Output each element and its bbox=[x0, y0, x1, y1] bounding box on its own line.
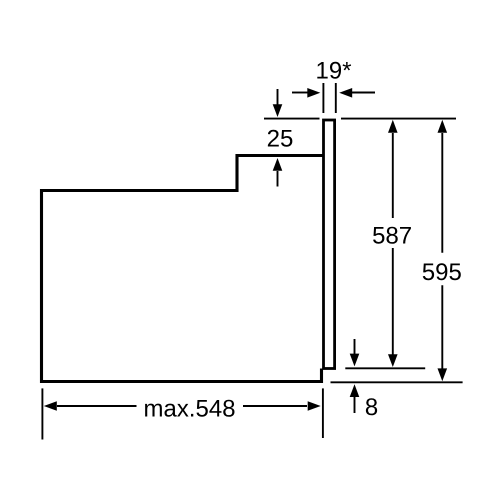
dimension arrow 25 upper (down) bbox=[273, 89, 283, 117]
dimension line 587 bbox=[388, 120, 398, 367]
oven door panel bbox=[324, 120, 335, 369]
dimension arrow 25 lower (up) bbox=[273, 158, 283, 187]
label 595 bbox=[423, 263, 461, 280]
label 8 bbox=[366, 398, 377, 415]
dimension arrow 19* right bbox=[339, 88, 375, 98]
dimension line max.548 bbox=[44, 401, 321, 411]
extension line door bottom level bbox=[345, 367, 425, 369]
extension line 19* right bbox=[335, 83, 337, 113]
dimension line 595 bbox=[438, 120, 448, 381]
label 25 bbox=[268, 130, 292, 147]
dimension arrow 8 upper (down) bbox=[350, 339, 360, 366]
dimension arrow 19* left bbox=[292, 88, 320, 98]
extension line carcass bottom level bbox=[331, 381, 463, 383]
oven carcass outline bbox=[42, 156, 324, 382]
extension line max.548 right bbox=[322, 388, 324, 438]
label 19* bbox=[317, 62, 351, 79]
label 587 bbox=[373, 227, 411, 244]
label max.548 bbox=[145, 400, 234, 417]
dimension arrow 8 lower (up) bbox=[350, 384, 360, 413]
extension line top (door top level) bbox=[264, 118, 456, 120]
extension line 19* left bbox=[322, 83, 324, 113]
extension line max.548 left bbox=[41, 388, 43, 439]
